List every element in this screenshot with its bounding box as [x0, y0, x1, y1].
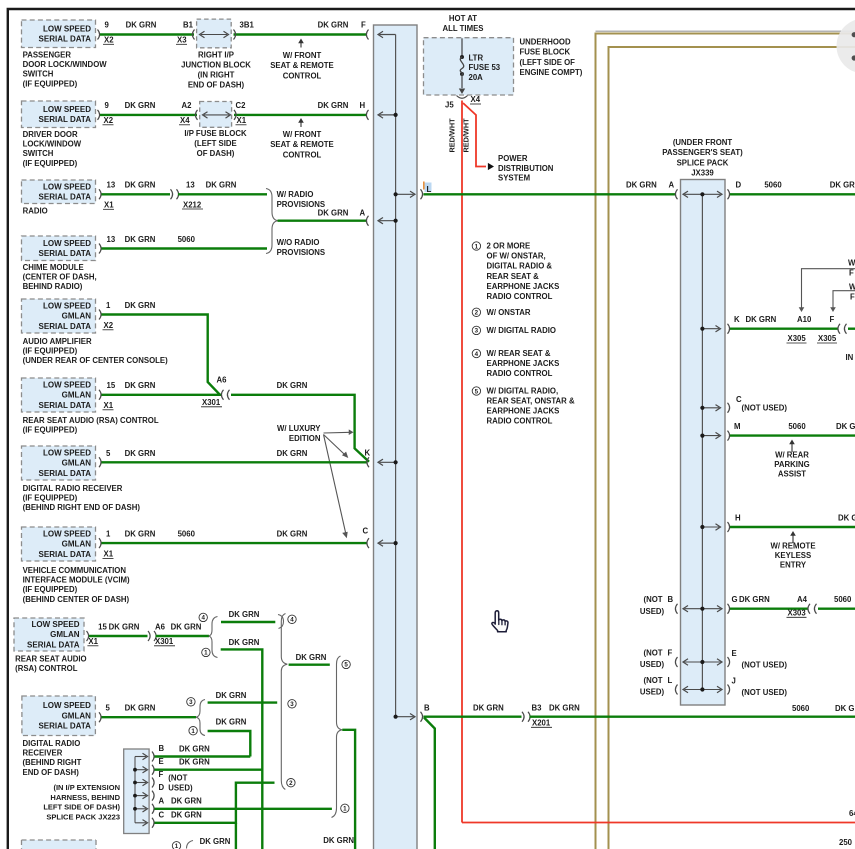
svg-text:(IF EQUIPPED): (IF EQUIPPED): [23, 79, 78, 88]
svg-text:(BEHIND CENTER OF DASH): (BEHIND CENTER OF DASH): [23, 595, 130, 604]
svg-text:LOW SPEED: LOW SPEED: [43, 529, 91, 538]
svg-text:DK GRN: DK GRN: [830, 181, 855, 190]
svg-text:LOW SPEED: LOW SPEED: [43, 239, 91, 248]
svg-text:IN: IN: [846, 353, 854, 362]
svg-text:20A: 20A: [469, 73, 484, 82]
svg-text:5: 5: [106, 704, 111, 713]
svg-text:(IF EQUIPPED): (IF EQUIPPED): [23, 494, 78, 503]
svg-text:A6: A6: [155, 623, 166, 632]
svg-text:EARPHONE JACKS: EARPHONE JACKS: [487, 359, 560, 368]
svg-text:15: 15: [107, 381, 116, 390]
svg-text:5060: 5060: [788, 422, 806, 431]
svg-text:DK GRN: DK GRN: [838, 514, 855, 523]
svg-text:EDITION: EDITION: [289, 434, 321, 443]
svg-text:(IF EQUIPPED): (IF EQUIPPED): [23, 426, 78, 435]
svg-text:X303: X303: [788, 609, 807, 618]
svg-text:3: 3: [189, 699, 193, 706]
svg-text:J5: J5: [445, 101, 454, 110]
svg-text:DK GRN: DK GRN: [626, 181, 657, 190]
svg-text:A10: A10: [797, 315, 812, 324]
svg-text:X1: X1: [237, 116, 247, 125]
svg-text:SERIAL DATA: SERIAL DATA: [39, 34, 92, 43]
svg-text:DK GRN: DK GRN: [323, 836, 354, 845]
svg-text:END OF DASH): END OF DASH): [23, 768, 80, 777]
svg-text:PASSENGER'S SEAT): PASSENGER'S SEAT): [662, 148, 743, 157]
svg-text:(IN I/P EXTENSION: (IN I/P EXTENSION: [53, 783, 120, 792]
svg-text:F: F: [159, 770, 164, 779]
svg-text:5: 5: [475, 388, 479, 395]
svg-text:ASSIST: ASSIST: [778, 470, 806, 479]
svg-text:SPLICE PACK: SPLICE PACK: [677, 158, 729, 167]
svg-text:GMLAN: GMLAN: [62, 391, 92, 400]
svg-text:GMLAN: GMLAN: [62, 540, 92, 549]
svg-text:DK GRN: DK GRN: [746, 315, 777, 324]
svg-text:LEFT SIDE OF DASH): LEFT SIDE OF DASH): [43, 803, 120, 812]
svg-text:250: 250: [839, 838, 853, 847]
svg-text:W: W: [848, 259, 855, 268]
svg-text:JX339: JX339: [691, 169, 714, 178]
svg-text:X212: X212: [183, 201, 202, 210]
svg-text:DK GRN: DK GRN: [171, 796, 202, 805]
svg-text:LOW SPEED: LOW SPEED: [43, 448, 91, 457]
svg-text:LOW SPEED: LOW SPEED: [43, 24, 91, 33]
svg-text:B3: B3: [532, 704, 543, 713]
svg-text:RADIO CONTROL: RADIO CONTROL: [487, 417, 553, 426]
svg-text:W/ DIGITAL RADIO: W/ DIGITAL RADIO: [487, 326, 556, 335]
svg-text:4: 4: [201, 615, 205, 622]
svg-text:DK GRN: DK GRN: [125, 530, 156, 539]
svg-text:REAR SEAT AUDIO (RSA) CONTROL: REAR SEAT AUDIO (RSA) CONTROL: [23, 416, 159, 425]
svg-text:RADIO CONTROL: RADIO CONTROL: [487, 369, 553, 378]
svg-text:END OF DASH): END OF DASH): [188, 80, 245, 89]
svg-text:A: A: [360, 209, 366, 218]
svg-text:SERIAL DATA: SERIAL DATA: [39, 322, 92, 331]
svg-text:REAR SEAT AUDIO: REAR SEAT AUDIO: [15, 655, 86, 664]
svg-text:X2: X2: [104, 116, 114, 125]
svg-text:W/ RADIO: W/ RADIO: [277, 190, 314, 199]
svg-text:5060: 5060: [792, 704, 810, 713]
svg-text:LTR: LTR: [469, 54, 484, 63]
svg-text:A: A: [159, 796, 165, 805]
svg-text:DK GRN: DK GRN: [296, 653, 327, 662]
svg-text:15: 15: [98, 623, 107, 632]
svg-text:2: 2: [289, 780, 293, 787]
svg-text:64: 64: [849, 809, 855, 818]
svg-text:RADIO: RADIO: [23, 207, 48, 216]
svg-text:X3: X3: [177, 36, 187, 45]
svg-text:5060: 5060: [178, 235, 196, 244]
svg-text:(NOT USED): (NOT USED): [742, 404, 788, 413]
svg-text:LOW SPEED: LOW SPEED: [31, 620, 79, 629]
svg-text:ENTRY: ENTRY: [780, 561, 807, 570]
svg-text:HOT AT: HOT AT: [449, 14, 477, 23]
svg-text:(NOT USED): (NOT USED): [742, 688, 788, 697]
svg-text:(NOT: (NOT: [168, 774, 187, 783]
svg-text:DK GRN: DK GRN: [277, 381, 308, 390]
svg-text:13: 13: [107, 235, 116, 244]
svg-text:(NOT: (NOT: [643, 648, 662, 657]
svg-text:LOW SPEED: LOW SPEED: [43, 182, 91, 191]
svg-text:DIGITAL RADIO: DIGITAL RADIO: [23, 739, 81, 748]
svg-text:INTERFACE MODULE (VCIM): INTERFACE MODULE (VCIM): [23, 576, 130, 585]
svg-text:A: A: [669, 181, 675, 190]
svg-text:X301: X301: [155, 637, 174, 646]
svg-text:KEYLESS: KEYLESS: [775, 551, 811, 560]
svg-text:(BEHIND RIGHT END OF DASH): (BEHIND RIGHT END OF DASH): [23, 503, 141, 512]
svg-text:1: 1: [191, 728, 195, 735]
svg-text:13: 13: [107, 181, 116, 190]
svg-text:1: 1: [106, 530, 111, 539]
svg-text:CONTROL: CONTROL: [283, 71, 322, 80]
svg-text:E: E: [159, 757, 164, 766]
svg-text:X4: X4: [471, 95, 481, 104]
svg-text:W/ REMOTE: W/ REMOTE: [770, 542, 815, 551]
svg-text:DK GRN: DK GRN: [179, 745, 210, 754]
svg-text:DRIVER DOOR: DRIVER DOOR: [23, 130, 78, 139]
svg-text:CHIME MODULE: CHIME MODULE: [23, 263, 84, 272]
svg-text:OF W/ ONSTAR,: OF W/ ONSTAR,: [487, 252, 546, 261]
svg-text:DIGITAL RADIO &: DIGITAL RADIO &: [487, 262, 553, 271]
svg-text:X201: X201: [532, 719, 551, 728]
svg-text:B: B: [159, 744, 165, 753]
svg-text:1: 1: [106, 301, 111, 310]
svg-text:USED): USED): [640, 660, 665, 669]
svg-text:(LEFT SIDE: (LEFT SIDE: [194, 139, 236, 148]
svg-text:DK GRN: DK GRN: [126, 21, 157, 30]
svg-text:DK GRN: DK GRN: [229, 638, 260, 647]
svg-text:W/ LUXURY: W/ LUXURY: [277, 424, 321, 433]
svg-text:CONTROL: CONTROL: [283, 150, 322, 159]
svg-text:HARNESS, BEHIND: HARNESS, BEHIND: [50, 793, 120, 802]
svg-text:C: C: [159, 810, 165, 819]
svg-text:VEHICLE COMMUNICATION: VEHICLE COMMUNICATION: [23, 566, 127, 575]
svg-text:LOW SPEED: LOW SPEED: [43, 105, 91, 114]
svg-text:L: L: [668, 676, 673, 685]
svg-text:DK GRN: DK GRN: [179, 758, 210, 767]
svg-text:RADIO CONTROL: RADIO CONTROL: [487, 292, 553, 301]
svg-text:REAR SEAT, ONSTAR &: REAR SEAT, ONSTAR &: [487, 397, 575, 406]
svg-text:X1: X1: [104, 550, 114, 559]
svg-text:DK GRN: DK GRN: [277, 530, 308, 539]
svg-text:D: D: [159, 783, 165, 792]
svg-text:SYSTEM: SYSTEM: [498, 174, 530, 183]
svg-text:F: F: [668, 648, 673, 657]
svg-text:1: 1: [343, 806, 347, 813]
svg-text:GMLAN: GMLAN: [62, 711, 92, 720]
svg-text:DK GRN: DK GRN: [549, 704, 580, 713]
svg-text:(NOT USED): (NOT USED): [742, 661, 788, 670]
svg-text:5060: 5060: [834, 595, 852, 604]
svg-text:POWER: POWER: [498, 154, 528, 163]
svg-text:(IF EQUIPPED): (IF EQUIPPED): [23, 585, 78, 594]
svg-text:E: E: [732, 649, 737, 658]
svg-text:SERIAL DATA: SERIAL DATA: [39, 550, 92, 559]
svg-text:H: H: [735, 514, 741, 523]
svg-text:X305: X305: [788, 334, 807, 343]
svg-text:K: K: [365, 449, 371, 458]
svg-text:3B1: 3B1: [240, 21, 255, 30]
svg-text:SEAT & REMOTE: SEAT & REMOTE: [270, 140, 334, 149]
svg-text:FUSE BLOCK: FUSE BLOCK: [520, 48, 571, 57]
svg-text:F: F: [850, 293, 855, 302]
svg-text:EARPHONE JACKS: EARPHONE JACKS: [487, 407, 560, 416]
svg-text:GMLAN: GMLAN: [50, 630, 80, 639]
svg-text:DK GRN: DK GRN: [200, 837, 231, 846]
svg-text:OF DASH): OF DASH): [197, 149, 235, 158]
svg-text:(LEFT SIDE OF: (LEFT SIDE OF: [520, 58, 576, 67]
svg-text:LOW SPEED: LOW SPEED: [43, 701, 91, 710]
svg-text:SEAT & REMOTE: SEAT & REMOTE: [270, 61, 334, 70]
svg-text:H: H: [360, 101, 366, 110]
svg-text:1: 1: [204, 650, 208, 657]
svg-text:AUDIO AMPLIFIER: AUDIO AMPLIFIER: [23, 337, 92, 346]
svg-text:W/ DIGITAL RADIO,: W/ DIGITAL RADIO,: [487, 386, 559, 395]
svg-text:DK GRN: DK GRN: [109, 623, 140, 632]
svg-text:4: 4: [290, 617, 294, 624]
svg-text:SERIAL DATA: SERIAL DATA: [39, 115, 92, 124]
svg-text:DK GRN: DK GRN: [125, 101, 156, 110]
svg-text:W/ FRONT: W/ FRONT: [283, 130, 322, 139]
svg-text:EARPHONE JACKS: EARPHONE JACKS: [487, 282, 560, 291]
svg-text:RECEIVER: RECEIVER: [23, 749, 63, 758]
svg-text:(CENTER OF DASH,: (CENTER OF DASH,: [23, 273, 97, 282]
svg-text:UNDERHOOD: UNDERHOOD: [520, 38, 571, 47]
svg-text:(IF EQUIPPED): (IF EQUIPPED): [23, 347, 78, 356]
svg-text:SWITCH: SWITCH: [23, 149, 54, 158]
svg-text:W/O RADIO: W/O RADIO: [277, 238, 320, 247]
svg-text:M: M: [734, 422, 741, 431]
svg-text:DK GRN: DK GRN: [125, 449, 156, 458]
svg-text:F: F: [849, 269, 854, 278]
svg-text:RED/WHT: RED/WHT: [448, 118, 457, 153]
svg-text:(UNDER REAR OF CENTER CONSOLE): (UNDER REAR OF CENTER CONSOLE): [23, 356, 169, 365]
svg-text:(BEHIND RIGHT: (BEHIND RIGHT: [23, 758, 82, 767]
svg-text:USED): USED): [168, 783, 193, 792]
svg-text:A2: A2: [182, 101, 193, 110]
svg-text:X4: X4: [180, 116, 190, 125]
svg-text:RED/WHT: RED/WHT: [462, 118, 471, 153]
svg-text:(RSA) CONTROL: (RSA) CONTROL: [15, 664, 78, 673]
svg-text:DK GRN: DK GRN: [318, 101, 349, 110]
svg-text:DK GRN: DK GRN: [171, 623, 202, 632]
svg-text:DK GRN: DK GRN: [216, 718, 247, 727]
svg-text:DK GRN: DK GRN: [318, 209, 349, 218]
svg-text:DK GRN: DK GRN: [216, 691, 247, 700]
svg-text:2: 2: [475, 310, 479, 317]
svg-text:D: D: [736, 181, 742, 190]
svg-text:X2: X2: [104, 321, 114, 330]
svg-text:SERIAL DATA: SERIAL DATA: [27, 640, 80, 649]
svg-text:W/ ONSTAR: W/ ONSTAR: [487, 308, 531, 317]
svg-text:PASSENGER: PASSENGER: [23, 51, 72, 60]
svg-text:5: 5: [344, 662, 348, 669]
svg-text:DK GRN: DK GRN: [277, 449, 308, 458]
svg-text:13: 13: [186, 181, 195, 190]
svg-text:RIGHT I/P: RIGHT I/P: [198, 51, 234, 60]
svg-text:B1: B1: [183, 21, 194, 30]
svg-text:(IN RIGHT: (IN RIGHT: [198, 71, 235, 80]
svg-text:A4: A4: [797, 595, 808, 604]
svg-text:G: G: [732, 595, 738, 604]
svg-text:9: 9: [105, 101, 110, 110]
svg-text:REAR SEAT &: REAR SEAT &: [487, 272, 540, 281]
svg-text:X305: X305: [818, 334, 837, 343]
svg-text:(NOT: (NOT: [643, 676, 662, 685]
svg-text:W/ REAR SEAT &: W/ REAR SEAT &: [487, 349, 551, 358]
svg-text:DK GRN: DK GRN: [739, 595, 770, 604]
svg-text:PARKING: PARKING: [774, 460, 809, 469]
svg-text:A6: A6: [217, 376, 228, 385]
svg-text:F: F: [361, 21, 366, 30]
svg-text:ALL TIMES: ALL TIMES: [442, 24, 483, 33]
svg-text:3: 3: [290, 701, 294, 708]
svg-text:B: B: [668, 595, 674, 604]
svg-text:USED): USED): [640, 688, 665, 697]
svg-text:(NOT: (NOT: [643, 595, 662, 604]
svg-text:(IF EQUIPPED): (IF EQUIPPED): [23, 159, 78, 168]
svg-text:SPLICE PACK JX223: SPLICE PACK JX223: [46, 812, 120, 821]
svg-text:5060: 5060: [764, 181, 782, 190]
svg-text:USED): USED): [640, 607, 665, 616]
svg-text:BEHIND RADIO): BEHIND RADIO): [23, 282, 83, 291]
svg-text:L: L: [427, 185, 432, 194]
svg-text:DK GRN: DK GRN: [125, 704, 156, 713]
svg-text:1: 1: [475, 243, 479, 250]
svg-text:3: 3: [475, 328, 479, 335]
svg-text:X301: X301: [202, 398, 221, 407]
svg-text:DK GRN: DK GRN: [171, 811, 202, 820]
svg-text:K: K: [734, 315, 740, 324]
svg-text:I/P FUSE BLOCK: I/P FUSE BLOCK: [184, 129, 247, 138]
svg-text:SERIAL DATA: SERIAL DATA: [39, 192, 92, 201]
svg-text:B: B: [424, 704, 430, 713]
svg-text:LOW SPEED: LOW SPEED: [43, 380, 91, 389]
svg-text:C: C: [363, 526, 369, 535]
svg-text:F: F: [830, 315, 835, 324]
svg-text:DK GRN: DK GRN: [473, 704, 504, 713]
svg-text:5: 5: [106, 449, 111, 458]
svg-text:(UNDER FRONT: (UNDER FRONT: [673, 138, 733, 147]
svg-text:5060: 5060: [178, 530, 196, 539]
svg-text:GMLAN: GMLAN: [62, 459, 92, 468]
svg-text:GMLAN: GMLAN: [62, 312, 92, 321]
svg-text:DK GRN: DK GRN: [206, 181, 237, 190]
svg-text:SERIAL DATA: SERIAL DATA: [39, 249, 92, 258]
svg-text:JUNCTION BLOCK: JUNCTION BLOCK: [181, 61, 251, 70]
svg-text:W: W: [849, 283, 855, 292]
svg-text:SWITCH: SWITCH: [23, 70, 54, 79]
svg-text:SERIAL DATA: SERIAL DATA: [39, 401, 92, 410]
svg-text:DK GRN: DK GRN: [835, 704, 855, 713]
svg-text:J: J: [732, 677, 736, 686]
svg-text:SERIAL DATA: SERIAL DATA: [38, 722, 91, 731]
svg-text:DK GRN: DK GRN: [125, 181, 156, 190]
svg-text:PROVISIONS: PROVISIONS: [277, 248, 326, 257]
svg-text:DISTRIBUTION: DISTRIBUTION: [498, 164, 554, 173]
svg-text:SERIAL DATA: SERIAL DATA: [39, 469, 92, 478]
svg-text:DK GRN: DK GRN: [836, 422, 855, 431]
svg-text:DK GRN: DK GRN: [229, 610, 260, 619]
svg-text:DK GRN: DK GRN: [125, 235, 156, 244]
svg-text:X1: X1: [104, 201, 114, 210]
svg-text:W/ REAR: W/ REAR: [775, 451, 809, 460]
svg-text:X1: X1: [104, 401, 114, 410]
svg-text:C2: C2: [236, 101, 247, 110]
svg-text:4: 4: [475, 351, 479, 358]
svg-text:X1: X1: [88, 637, 98, 646]
svg-text:DIGITAL RADIO RECEIVER: DIGITAL RADIO RECEIVER: [23, 484, 123, 493]
svg-text:W/ FRONT: W/ FRONT: [283, 51, 322, 60]
svg-text:DK GRN: DK GRN: [125, 301, 156, 310]
svg-text:1: 1: [175, 843, 179, 849]
svg-text:FUSE 53: FUSE 53: [469, 63, 501, 72]
svg-text:2 OR MORE: 2 OR MORE: [487, 242, 531, 251]
svg-text:X2: X2: [104, 36, 114, 45]
svg-text:9: 9: [105, 21, 110, 30]
svg-text:DOOR LOCK/WINDOW: DOOR LOCK/WINDOW: [23, 60, 108, 69]
svg-text:ENGINE COMPT): ENGINE COMPT): [520, 68, 583, 77]
svg-text:DK GRN: DK GRN: [318, 21, 349, 30]
svg-text:LOW SPEED: LOW SPEED: [43, 301, 91, 310]
svg-text:LOCK/WINDOW: LOCK/WINDOW: [23, 140, 82, 149]
svg-text:DK GRN: DK GRN: [125, 381, 156, 390]
